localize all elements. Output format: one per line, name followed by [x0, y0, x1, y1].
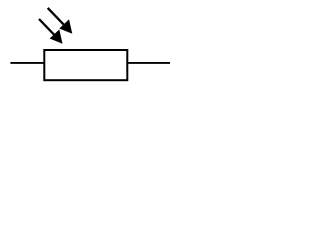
- wire right lead: [126, 62, 170, 64]
- resistor body (photoresistor box): [44, 50, 127, 80]
- wire left lead: [10, 62, 45, 64]
- light arrow 2 (lower): [39, 19, 63, 44]
- light arrow 1 (upper): [48, 8, 73, 34]
